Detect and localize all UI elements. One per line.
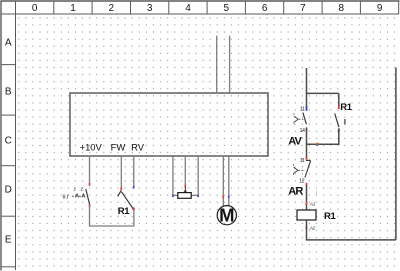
- svg-text:1: 1: [70, 3, 76, 14]
- motor M: [217, 156, 236, 226]
- contact R1 (NO, holding): [335, 93, 353, 144]
- svg-text:6: 6: [262, 3, 268, 14]
- svg-text:B: B: [5, 86, 12, 97]
- svg-text:A1: A1: [309, 202, 316, 207]
- wire: coil to bottom rail: [306, 220, 308, 240]
- wire: bottom return: [306, 239, 396, 241]
- potentiometer (speed reference): [172, 156, 199, 198]
- svg-text:A: A: [5, 37, 12, 48]
- wire: +10V down to thermal contact: [89, 156, 91, 184]
- svg-text:C: C: [5, 136, 12, 147]
- svg-text:0: 0: [32, 3, 38, 14]
- wire: bottom bus: [89, 225, 134, 227]
- svg-text:11: 11: [300, 106, 305, 112]
- wire: branch bottom: [306, 143, 340, 145]
- svg-text:7: 7: [300, 3, 306, 14]
- svg-text:12: 12: [299, 179, 304, 185]
- wire: thermal bottom to bus: [89, 206, 91, 226]
- svg-text:+10V: +10V: [80, 141, 103, 152]
- svg-text:5: 5: [224, 3, 230, 14]
- wire: AR to coil: [306, 185, 308, 210]
- svg-text:RV: RV: [131, 141, 145, 152]
- wire: branch top: [306, 92, 339, 94]
- svg-text:11: 11: [300, 158, 305, 164]
- svg-text:R1: R1: [324, 211, 336, 222]
- svg-text:9: 9: [377, 3, 383, 14]
- relay coil R1 (A1-A2): [297, 202, 336, 231]
- svg-text:E: E: [5, 235, 12, 246]
- svg-text:14: 14: [300, 128, 305, 134]
- svg-text:FW: FW: [111, 141, 126, 152]
- node: junction marker: [316, 143, 318, 147]
- svg-text:3: 3: [147, 3, 153, 14]
- svg-text:R1: R1: [118, 206, 130, 217]
- svg-text:θ.f: θ.f: [63, 195, 69, 201]
- wire: right rail: [395, 68, 397, 240]
- svg-text:A2: A2: [309, 226, 316, 231]
- svg-text:2: 2: [80, 186, 83, 191]
- thermal contact theta.f (pins 1-2): [63, 183, 91, 207]
- svg-text:1: 1: [74, 187, 77, 192]
- svg-text:2: 2: [109, 3, 115, 14]
- relay contact R1 (changeover switch): [118, 156, 135, 226]
- drive controller box: [70, 93, 268, 156]
- svg-text:R1: R1: [340, 102, 352, 113]
- wire: supply pair into box top: [217, 36, 230, 93]
- svg-text:M: M: [219, 205, 234, 226]
- svg-text:8: 8: [339, 3, 345, 14]
- svg-text:AR: AR: [288, 186, 303, 198]
- svg-text:AV: AV: [288, 135, 302, 147]
- contact AR (NC, 11-12): [288, 157, 317, 198]
- svg-text:D: D: [5, 184, 12, 195]
- control circuit: left rail: [306, 68, 308, 107]
- contact AV (NO, 11-14): [288, 106, 307, 147]
- svg-text:4: 4: [185, 3, 191, 14]
- wire: rail between AV and AR: [306, 144, 308, 159]
